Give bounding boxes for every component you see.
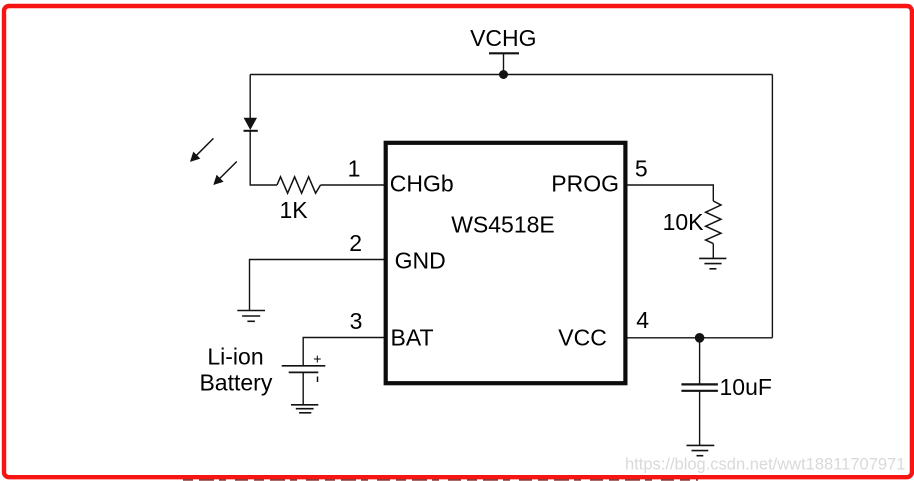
wire capacitor to ground [699, 392, 701, 446]
svg-text:2: 2 [349, 230, 362, 256]
battery BT1 plate long [282, 365, 326, 367]
svg-text:1K: 1K [280, 197, 309, 223]
node VCC junction dot [695, 333, 705, 343]
battery minus tick [317, 377, 319, 383]
node VCHG junction dot [499, 70, 508, 79]
ground at 10K [699, 258, 726, 268]
svg-text:Li-ion: Li-ion [207, 344, 263, 370]
wire pin 1 segment [321, 184, 386, 186]
IC U1 WS4518E body [386, 143, 626, 383]
wire 10K resistor to ground [712, 244, 714, 258]
wire LED cathode to resistor corner [250, 131, 277, 185]
LED D1 emission arrow 1 [190, 138, 213, 162]
svg-text:VCC: VCC [558, 325, 607, 351]
svg-text:+: + [313, 351, 321, 367]
wire top rail VCHG [250, 74, 772, 76]
svg-text:Battery: Battery [199, 370, 272, 396]
wire pin 3 segment [303, 338, 386, 366]
svg-text:4: 4 [636, 307, 649, 333]
svg-text:1: 1 [348, 156, 361, 182]
wire pin 2 segment [250, 260, 386, 311]
LED D1 emission arrow 2 [213, 162, 237, 186]
svg-text:VCHG: VCHG [470, 25, 536, 51]
svg-text:CHGb: CHGb [390, 171, 454, 197]
wire pin 5 segment [625, 185, 713, 201]
capacitor C1 plate top [681, 383, 718, 385]
svg-text:3: 3 [350, 308, 363, 334]
resistor R1 zigzag [277, 177, 321, 193]
power symbol VCHG [489, 53, 519, 74]
wire battery to ground [302, 373, 304, 405]
wire VCC node to capacitor [699, 338, 701, 384]
wire right rail [771, 75, 773, 338]
wire LED anode drop [249, 75, 251, 119]
cropped caption top edge [183, 479, 698, 481]
LED D1 triangle [244, 118, 257, 130]
LED D1 cathode bar [244, 130, 258, 132]
svg-text:https://blog.csdn.net/wwt18811: https://blog.csdn.net/wwt18811707971 [625, 456, 905, 474]
svg-text:WS4518E: WS4518E [451, 212, 555, 238]
battery BT1 plate short [289, 371, 319, 373]
svg-text:GND: GND [395, 247, 446, 273]
resistor R2 10K zigzag [706, 201, 721, 244]
svg-text:BAT: BAT [391, 325, 434, 351]
svg-text:10uF: 10uF [720, 374, 772, 400]
ground at battery [291, 405, 318, 413]
svg-text:10K: 10K [663, 209, 705, 235]
wire pin 4 segment [625, 337, 772, 339]
svg-text:5: 5 [635, 156, 648, 182]
svg-text:PROG: PROG [551, 171, 619, 197]
ground at pin 2 [237, 311, 265, 322]
capacitor C1 plate bottom [681, 390, 718, 392]
ground at capacitor [687, 445, 715, 455]
